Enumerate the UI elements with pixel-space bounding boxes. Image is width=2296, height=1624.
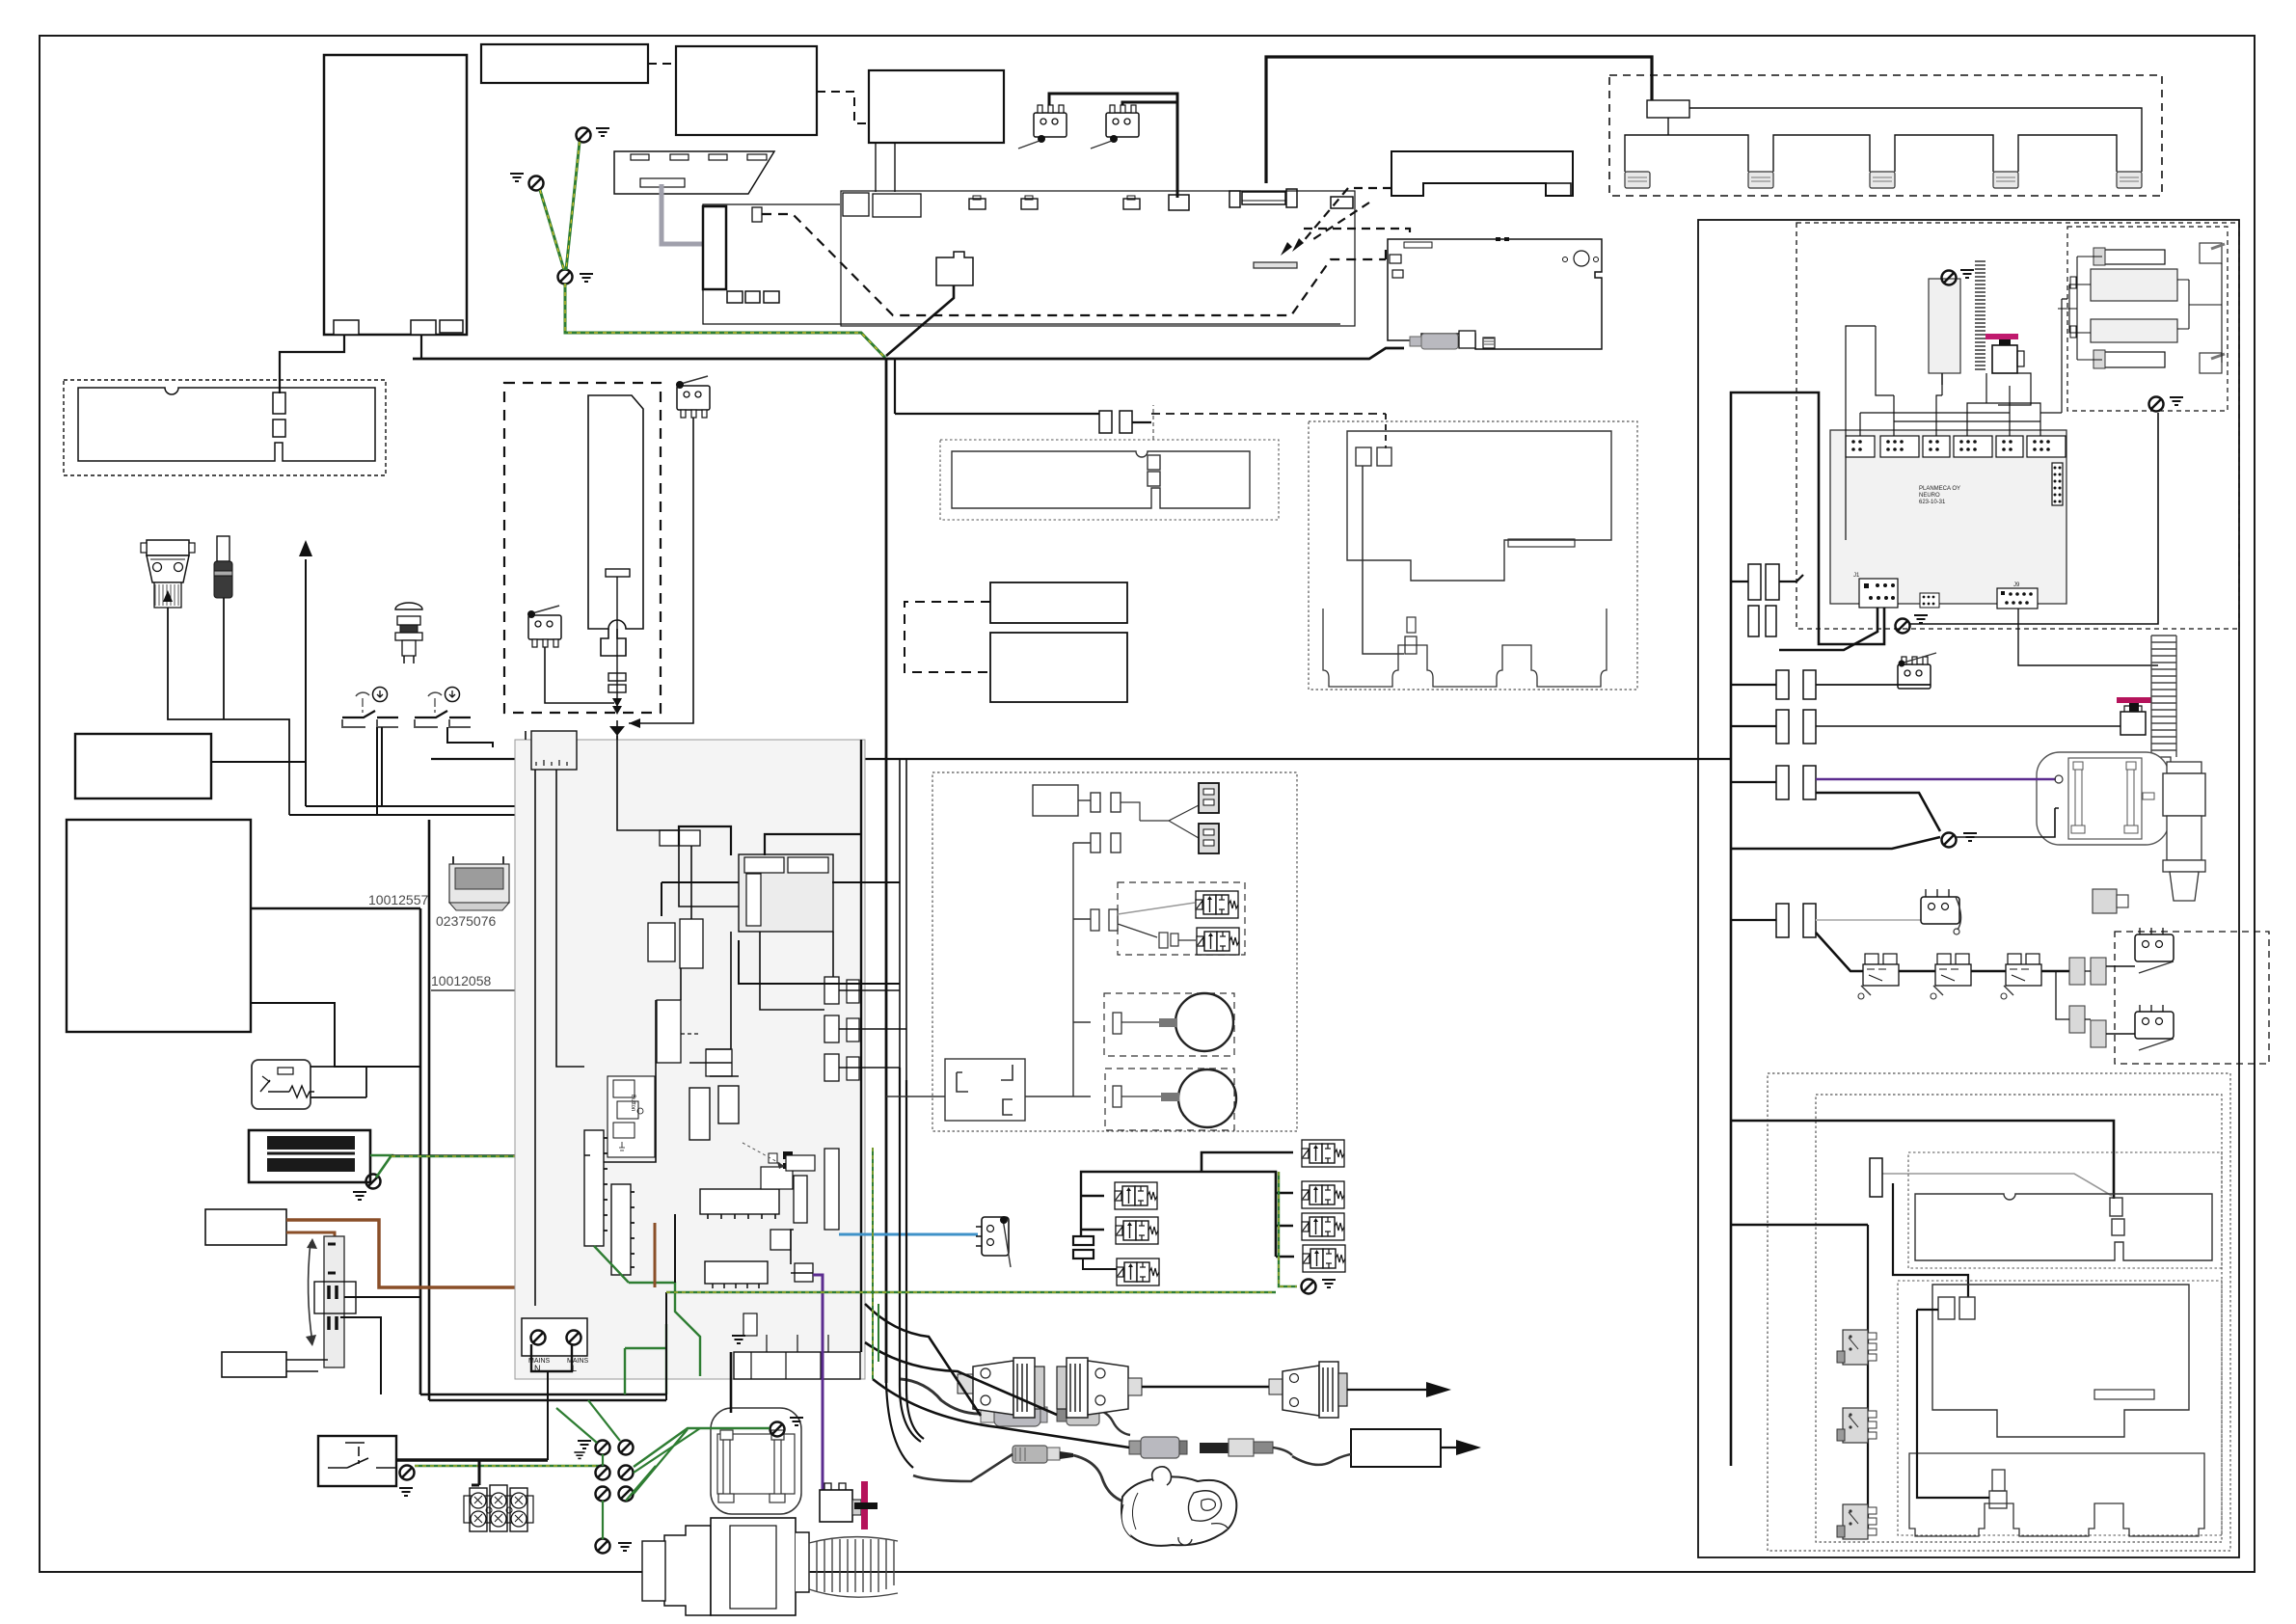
- PCB top wiring: [1860, 413, 2040, 436]
- bus2 horizontal: [431, 758, 1731, 760]
- drop wire from power entry: [886, 285, 954, 356]
- tall connector: [1870, 1158, 1882, 1197]
- svg-text:NEURO: NEURO: [1919, 493, 1940, 499]
- key switch 2: [415, 688, 471, 728]
- pump2 dashed box: [1105, 1069, 1234, 1130]
- plate P0: [952, 451, 1250, 508]
- key switch wires: [376, 727, 378, 815]
- ground screw mid: [1942, 833, 1957, 848]
- micro-switch blue: [976, 1216, 1011, 1267]
- gray flex wire: [662, 184, 703, 244]
- power entry box: [936, 252, 973, 285]
- rail clip 2: [1021, 199, 1038, 209]
- dotted box C1 + plate P1: [1908, 1152, 2222, 1268]
- panel left bus: [1779, 608, 1877, 650]
- cabinet box top-left: [324, 55, 467, 335]
- micro-switch right of box: [677, 386, 710, 418]
- rail clip 3: [1123, 199, 1140, 209]
- dashed D3: [1304, 229, 1410, 238]
- wires C to rail: [875, 143, 877, 192]
- small header: [1920, 593, 1939, 608]
- bracket box with notch: [1391, 151, 1573, 196]
- valves dashed box: [1118, 882, 1245, 955]
- tall box left: [67, 820, 251, 1032]
- dotted bus vertical: [1073, 843, 1091, 1096]
- box mid-left: [75, 734, 211, 798]
- mini switch group 3: [2001, 954, 2041, 999]
- tall gray cylinder: [1929, 279, 1960, 373]
- wire pin1 to plate connector: [280, 335, 344, 393]
- green pair down right of panel: [873, 1148, 878, 1379]
- actuator body 1: [2091, 269, 2177, 301]
- connector pair mid: [1099, 411, 1112, 433]
- mini switch group 2: [1931, 954, 1971, 999]
- dotted box C2: [1898, 1281, 2222, 1535]
- DC plug: [214, 536, 232, 598]
- foot switch 1: [1625, 172, 1650, 188]
- ground screw grid: [596, 1441, 610, 1455]
- wire down to bracket part: [1363, 466, 1404, 654]
- small gray part: [2093, 889, 2117, 913]
- big dashed box: [1796, 223, 2239, 629]
- wire pin2 to bus: [420, 335, 422, 359]
- sensor connector round: [1013, 1446, 1047, 1463]
- green wire heater: [370, 1155, 392, 1177]
- dashed harness to card: [1385, 243, 1387, 259]
- pump box lower: [222, 1352, 286, 1377]
- purple wire right: [1816, 778, 2056, 781]
- J9 connector: [1997, 588, 2038, 609]
- handheld control: [1121, 1467, 1236, 1546]
- green drop to ground: [1279, 1172, 1297, 1286]
- column switch 3: [1837, 1504, 1877, 1539]
- valve R1: [1302, 1140, 1344, 1167]
- center dashed box: [504, 383, 661, 713]
- green wires in panel: [594, 1246, 700, 1376]
- main gray panel: [515, 740, 865, 1379]
- dashed link B-C: [817, 92, 869, 123]
- ground screw under PCB: [1896, 619, 1910, 634]
- connector strip 2: [611, 1184, 631, 1275]
- ground screw valves: [1302, 1280, 1316, 1294]
- plate P2: [1932, 1285, 2189, 1437]
- capacitor pair: [1073, 1236, 1094, 1245]
- relay block: [739, 854, 833, 932]
- damper relay box: [252, 1060, 311, 1109]
- svg-text:MAINS: MAINS: [567, 1358, 589, 1365]
- trapezoid cover plate: [614, 151, 774, 194]
- micro-switch S1: [1034, 105, 1067, 137]
- DB9 pair: [958, 1358, 1142, 1418]
- solenoid valve bottom (magenta): [820, 1490, 852, 1522]
- gray pads right of switches: [2069, 958, 2085, 985]
- rail clip 1: [969, 199, 986, 209]
- bottom strip connector: [705, 1261, 768, 1284]
- valve R2: [1302, 1181, 1344, 1208]
- thermostat ground: [400, 1466, 415, 1480]
- ground screw G1: [577, 128, 591, 143]
- switch column: [1867, 1225, 1869, 1535]
- corrugated hose vertical: [1975, 261, 1985, 369]
- small box in dotted: [1033, 785, 1078, 816]
- bottom-right dotted boxes: [1768, 1073, 2230, 1551]
- purple wire: [813, 1275, 823, 1490]
- dotted plate box center: [940, 440, 1279, 520]
- black wire row3 to ground: [1731, 793, 1940, 849]
- small pads: [2070, 277, 2076, 288]
- dashed bracket to boxes: [905, 602, 990, 672]
- J9 loop: [2018, 609, 2158, 665]
- PS2 cable connector: [901, 1379, 981, 1414]
- float switch strip: [324, 1236, 344, 1367]
- XLR pair: [1129, 1441, 1141, 1454]
- svg-text:02375076: 02375076: [436, 913, 497, 929]
- PCB PLANMECA: [1830, 430, 2066, 604]
- PS2 pair right: [1057, 1409, 1067, 1421]
- svg-text:PLANMECA OY: PLANMECA OY: [1919, 486, 1960, 492]
- bottom wide connector: [734, 1352, 860, 1379]
- pump box upper: [205, 1209, 286, 1245]
- svg-text:623-10-31: 623-10-31: [1919, 500, 1946, 505]
- small part on bracket: [1992, 1470, 2005, 1491]
- DB25 connector: [141, 540, 195, 608]
- box B: [676, 46, 817, 135]
- actuator wiring: [2177, 263, 2222, 363]
- motor 2: [2200, 353, 2222, 373]
- bracket bottom: [1909, 1453, 2204, 1536]
- left dashed box: [64, 380, 386, 475]
- row pairs: [1776, 670, 1816, 937]
- heater striped box: [249, 1130, 370, 1182]
- ground screw G3: [558, 270, 573, 284]
- right connector column: [824, 977, 839, 1004]
- chassis outline: [703, 204, 1340, 324]
- air tank: [2037, 752, 2169, 845]
- valve V2: [1197, 928, 1239, 955]
- MAINS box: [522, 1318, 587, 1356]
- svg-text:J1: J1: [1853, 573, 1860, 579]
- rail outline box: [841, 191, 1355, 326]
- ball valve: [642, 1518, 809, 1615]
- dashed box lever switches: [2115, 932, 2269, 1064]
- green long horizontal: [666, 1286, 1276, 1292]
- long green-yellow earth wire: [565, 284, 885, 358]
- brown wires: [286, 1220, 656, 1287]
- micro-switch in dashed box: [528, 615, 561, 647]
- foot control dashed box: [1609, 75, 2162, 196]
- DB9 out right: [1269, 1362, 1347, 1418]
- main bus vertical: [885, 358, 888, 1383]
- thick feed to rail relay: [1266, 57, 1652, 183]
- svg-text:10012557: 10012557: [368, 892, 429, 907]
- actuator rail 1: [2102, 250, 2165, 264]
- pump1 circle: [1175, 993, 1233, 1051]
- connector mid 1: [689, 1088, 710, 1140]
- right valve column group: [1172, 1152, 1294, 1257]
- J1 down wire: [1731, 392, 1884, 644]
- dashed link to right dotted: [1151, 413, 1386, 415]
- box C: [869, 70, 1004, 143]
- rail clip 0a: [843, 193, 869, 216]
- dashed link A-B: [648, 63, 676, 65]
- pin block 1: [334, 320, 359, 335]
- box with dashed stub: [657, 1000, 681, 1063]
- foot switch 5: [2117, 172, 2142, 188]
- connector strip 1: [584, 1130, 604, 1246]
- compressor feed: [730, 1352, 733, 1413]
- connector pair 1: [1091, 793, 1100, 812]
- cable bundle to connectors: [865, 1304, 981, 1416]
- outlet 2: [1199, 824, 1219, 853]
- terminal block: [472, 1460, 479, 1485]
- power brick: [1351, 1429, 1441, 1467]
- tall blade plate: [588, 395, 643, 629]
- ground screw right: [2149, 397, 2164, 412]
- motor 1: [2200, 243, 2222, 263]
- svg-text:10012058: 10012058: [431, 973, 492, 988]
- pointer bar: [1254, 262, 1297, 268]
- J2..J7 connectors: [1846, 436, 2066, 457]
- wire row4 black diag: [1816, 933, 2069, 971]
- valve L1: [1115, 1182, 1157, 1209]
- outlet 1: [1199, 783, 1219, 813]
- dashed harness D1: [762, 214, 1386, 315]
- thermostat switch box: [318, 1436, 396, 1486]
- column switch 2: [1837, 1408, 1877, 1443]
- wire S1/S2 loop to rail box: [1049, 94, 1177, 198]
- chassis column: [703, 206, 726, 289]
- up arrow line: [305, 559, 307, 806]
- wire from P2 pair to part: [1917, 1318, 1946, 1320]
- small part + earth: [743, 1313, 757, 1336]
- wire into P1: [1893, 1183, 1968, 1297]
- two boxes: [648, 923, 675, 961]
- purple source box: [795, 1263, 813, 1282]
- green earth V wires: [566, 142, 580, 270]
- emergency stop: [395, 603, 422, 663]
- corrugated hose horizontal: [809, 1537, 898, 1597]
- gray wire row4: [1816, 919, 1921, 921]
- foot comb wiring: [1668, 108, 2142, 135]
- valve L2: [1116, 1217, 1158, 1244]
- connector on chassis: [752, 207, 762, 222]
- valve V1: [1196, 891, 1238, 918]
- ground screw heater: [366, 1175, 381, 1189]
- clip boxes under chassis: [727, 291, 743, 303]
- foot switch 3: [1870, 172, 1895, 188]
- pair to valves: [1091, 909, 1099, 931]
- interface card PCB: [1388, 239, 1602, 349]
- rail relay cluster: [1229, 191, 1240, 207]
- brown vertical to connector: [654, 1223, 657, 1287]
- panel inner wires: [526, 726, 617, 740]
- key switch 1: [342, 688, 398, 728]
- right panel mid connectors: [1748, 564, 1761, 600]
- panel top connector: [531, 731, 577, 770]
- J1 connector: [1859, 579, 1898, 608]
- micro-switch row4: [1921, 889, 1961, 934]
- gray plug: [1421, 334, 1458, 349]
- wires from thermostat: [396, 1458, 548, 1462]
- connector pair 2: [1091, 833, 1100, 853]
- bracket under P3: [1323, 609, 1607, 687]
- pair on P3: [1356, 447, 1371, 466]
- right panel solid frame: [1698, 220, 2239, 1557]
- right dotted box (tank plate): [1309, 421, 1637, 690]
- button cluster: [608, 1076, 655, 1157]
- actuator body 2: [2091, 319, 2177, 342]
- box A: [481, 44, 648, 83]
- wire from bus bottom curves: [886, 1068, 924, 1468]
- compressor: [711, 1408, 801, 1514]
- feed wires from panel bus: [1731, 1121, 2114, 1225]
- mounting plate left: [78, 388, 375, 461]
- dashed D2 to bar: [1302, 188, 1391, 243]
- solenoid valve with magenta handle: [1992, 345, 2017, 373]
- svg-text:Button: Button: [630, 1095, 635, 1111]
- white box in dotted: [945, 1059, 1025, 1121]
- pump2 circle: [1178, 1069, 1236, 1127]
- plate P3: [1347, 431, 1611, 581]
- valve R3: [1302, 1213, 1344, 1240]
- corrugated hose right vertical: [2151, 636, 2176, 757]
- double vertical lines: [420, 820, 429, 1400]
- micro-switch row1: [1898, 657, 1931, 689]
- two stacked boxes center-right: [990, 582, 1127, 623]
- pair on P2: [1938, 1297, 1955, 1319]
- rail clip right: [1331, 197, 1353, 208]
- solenoid valve right (magenta): [2120, 712, 2146, 735]
- main bus horizontal: [413, 348, 1404, 359]
- center assembly: [700, 1189, 779, 1214]
- rail clip 0b: [873, 194, 921, 217]
- column switch 1: [1837, 1330, 1877, 1365]
- ground screw G2: [529, 176, 544, 191]
- svg-text:J9: J9: [2013, 582, 2020, 588]
- chair part icon: [449, 856, 509, 910]
- micro-switch S2: [1106, 105, 1139, 137]
- lever switch A: [2135, 928, 2174, 973]
- foot feed box: [1647, 100, 1689, 118]
- pin block 3: [440, 320, 463, 333]
- small rect on panel: [660, 830, 700, 846]
- foot switch 4: [1993, 172, 2018, 188]
- valve R4: [1303, 1245, 1345, 1272]
- pressure regulator: [2163, 762, 2205, 901]
- valve L3: [1117, 1259, 1159, 1286]
- wire row2 to solenoid: [1816, 725, 2120, 727]
- bus pair thin: [899, 759, 901, 1068]
- center dotted box: [932, 772, 1297, 1131]
- blue wire: [839, 1233, 978, 1236]
- compressor ground: [770, 1422, 785, 1437]
- actuators dashed sub-box: [2067, 227, 2228, 411]
- foot switch 2: [1748, 172, 1773, 188]
- right header: [2052, 463, 2063, 505]
- actuator rail 2: [2102, 352, 2165, 367]
- left valve column group: [1081, 1172, 1172, 1237]
- lever switch B: [2135, 1005, 2174, 1050]
- mini switch group 1: [1858, 954, 1899, 999]
- pin block 2: [411, 320, 436, 335]
- rail box 4: [1169, 195, 1189, 210]
- pump1 dashed box: [1104, 993, 1234, 1056]
